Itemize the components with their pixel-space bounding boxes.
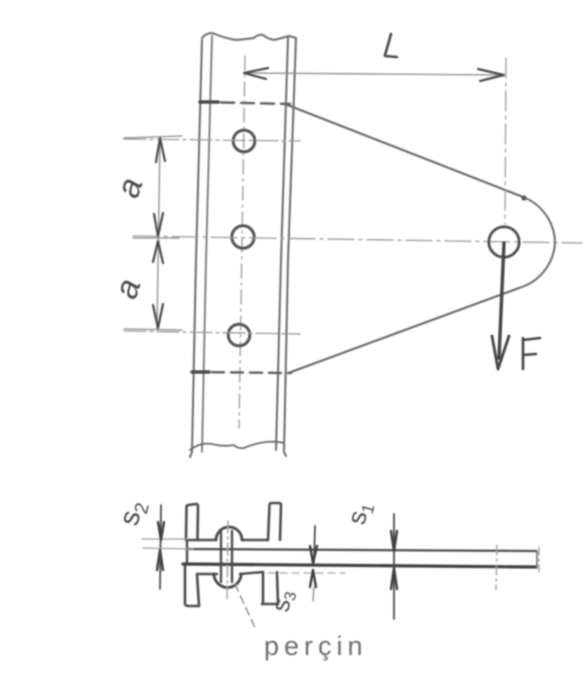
rivet shank right line (231, 531, 233, 582)
channel top break wavy line (202, 33, 296, 40)
channel left inner edge (202, 36, 212, 452)
plate centerline tick (pin position) (496, 545, 497, 590)
svg-text:s2: s2 (113, 497, 154, 530)
label L (385, 34, 397, 57)
bracket rounded end arc (519, 197, 555, 288)
dimension L right arrowhead (478, 69, 504, 81)
s3 up arrowhead (310, 570, 316, 587)
dimension a middle arrowheads (153, 213, 163, 263)
svg-text:a: a (107, 274, 148, 303)
s2 up arrowhead (157, 550, 163, 570)
dimension a top arrowhead (up) (156, 138, 165, 162)
hole 1 centerline (124, 139, 300, 141)
rivet hole 2 (232, 226, 254, 248)
rivet vertical centerline (227, 521, 228, 600)
dimension L left arrowhead (244, 68, 268, 79)
top-right flange (268, 503, 281, 540)
web top line right segment (243, 539, 268, 541)
dimension a bottom arrowhead (down) (153, 304, 163, 328)
lower face line left segment (197, 573, 217, 575)
channel bottom break wavy line (190, 442, 284, 450)
s3 lower line continuation (313, 587, 314, 601)
svg-text:s3: s3 (266, 587, 300, 614)
force F arrowhead (492, 336, 509, 369)
plate right end (536, 551, 538, 568)
force F line (499, 243, 504, 358)
dimension a lower extension line (124, 329, 182, 330)
plate top line (187, 549, 536, 551)
pin vertical centerline (505, 58, 506, 224)
channel right outer edge (284, 38, 296, 456)
dimension L line (248, 73, 500, 75)
ink blob at arc/diagonal junction (521, 195, 526, 200)
dimension a upper extension line (124, 136, 182, 138)
svg-text:a: a (109, 173, 150, 202)
dimension a middle extension line (133, 237, 179, 239)
s2 down arrowhead (158, 522, 164, 540)
hidden plate top edge blob at channel edge (200, 100, 218, 104)
lower face line right segment (240, 572, 263, 574)
pin hole circle (489, 227, 519, 257)
rivet bottom head (214, 574, 241, 588)
rivet hole 3 (228, 324, 250, 346)
s3 dimension line (314, 526, 315, 562)
rivet shank left line (220, 532, 222, 582)
bottom-left flange (185, 566, 199, 606)
web top line left segment (187, 539, 216, 541)
leader line to percin (235, 584, 256, 630)
hidden plate top edge (dashed) (201, 102, 290, 104)
svg-text:s1: s1 (341, 498, 379, 528)
s2 lower extension line (143, 548, 193, 549)
rivet hole 1 (233, 130, 255, 152)
web left end closure (186, 540, 188, 564)
bracket top diagonal edge (285, 104, 523, 197)
svg-text:perçin: perçin (264, 631, 368, 661)
plate bottom line (183, 564, 536, 567)
hidden plate bottom edge blob at channel edge (192, 370, 209, 373)
dimension a line (157, 139, 160, 329)
label F (523, 338, 540, 369)
channel left outer edge (190, 40, 202, 457)
s3 down arrowhead (310, 546, 317, 563)
channel vertical centerline (239, 56, 245, 428)
rivet top head (216, 527, 242, 540)
s2 upper extension line (142, 538, 188, 540)
bracket bottom diagonal edge (291, 288, 519, 372)
top-left flange (186, 504, 198, 540)
plate end centerline tick (538, 547, 540, 572)
s1 down arrowhead (391, 531, 397, 551)
s1 up arrowhead (391, 568, 397, 589)
hole 3 centerline (124, 331, 300, 334)
bottom-right flange (262, 572, 278, 604)
s1 dimension line (393, 514, 395, 619)
s2 dimension line (160, 505, 161, 589)
channel right inner edge (276, 38, 288, 450)
hidden plate bottom edge (dashed) (193, 372, 291, 373)
main horizontal centerline through hole 2 and pin (133, 236, 582, 243)
hidden lower face dashed extension (268, 572, 345, 574)
